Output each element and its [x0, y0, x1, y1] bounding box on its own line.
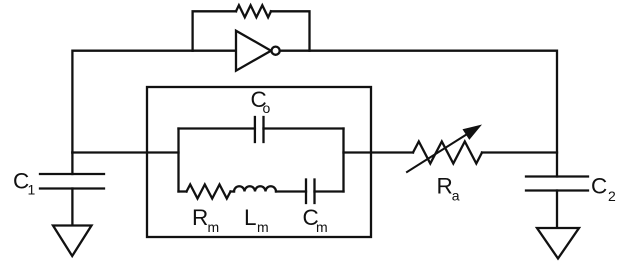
wire node A: middle line left [72, 151, 178, 153]
svg-text:L: L [244, 205, 257, 230]
resistor Rf feedback zigzag [236, 5, 271, 17]
svg-text:R: R [192, 205, 208, 230]
svg-text:C: C [591, 174, 607, 199]
wire feedback loop left vertical [193, 11, 236, 50]
svg-text:1: 1 [28, 182, 36, 198]
inductor Lm 4 arcs [234, 186, 276, 191]
svg-text:R: R [437, 174, 453, 199]
op-amp U1 inverter triangle [236, 31, 271, 71]
inverter output bubble [272, 47, 280, 55]
resistor Rm zigzag [187, 185, 231, 199]
wire inner rect right vertical [342, 129, 344, 192]
Ra arrow shaft [407, 135, 466, 172]
wire middle line right of box [344, 151, 414, 153]
wire top input (node between C1 and inverter input) [72, 51, 236, 153]
Ra arrowhead [463, 125, 483, 140]
svg-text:m: m [316, 219, 328, 235]
wire C2 bottom lead [556, 191, 558, 229]
ground under C1 [53, 226, 92, 257]
wire feedback loop right vertical [271, 11, 310, 50]
resistor Ra variable zigzag [413, 142, 482, 164]
svg-text:o: o [263, 100, 271, 116]
label C1 [13, 169, 36, 198]
wire Ra to right vertical [482, 151, 557, 153]
svg-text:m: m [257, 219, 269, 235]
label C0 [251, 87, 271, 116]
wire Cm to inner right vertical [315, 190, 344, 192]
label Cm [303, 205, 328, 235]
wire Rm to Lm [231, 190, 235, 192]
wire top branch left of C0 [179, 127, 255, 129]
wire C1 bottom lead [71, 189, 73, 226]
label Lm [244, 205, 269, 235]
capacitor C1 plates [40, 173, 104, 175]
wire C1 top lead [71, 153, 73, 175]
wire inverter output to right vertical [280, 51, 557, 177]
wire top branch right of C0 [264, 127, 344, 129]
label C2 [591, 174, 616, 204]
wire bottom branch lead-in [179, 190, 187, 192]
capacitor Cm plates [305, 180, 307, 204]
capacitor C0 plates [254, 117, 256, 142]
label Rm [192, 205, 219, 235]
label Ra [437, 174, 460, 204]
svg-text:a: a [452, 188, 460, 204]
capacitor C2 plates [526, 175, 588, 177]
svg-text:2: 2 [608, 188, 616, 204]
wire Lm to Cm [276, 190, 306, 192]
crystal box [147, 87, 371, 237]
svg-text:m: m [208, 219, 220, 235]
wire inner rect left vertical [177, 129, 179, 192]
ground under C2 [537, 228, 579, 259]
